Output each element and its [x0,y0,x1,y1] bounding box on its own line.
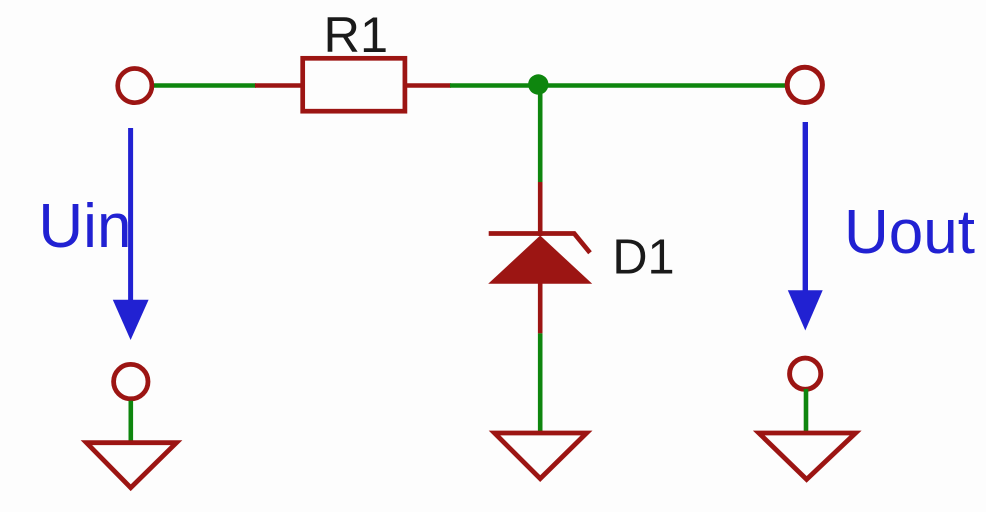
svg-text:Uout: Uout [844,198,975,267]
svg-text:R1: R1 [324,6,389,63]
svg-text:D1: D1 [612,230,674,284]
svg-text:Uin: Uin [38,192,131,261]
